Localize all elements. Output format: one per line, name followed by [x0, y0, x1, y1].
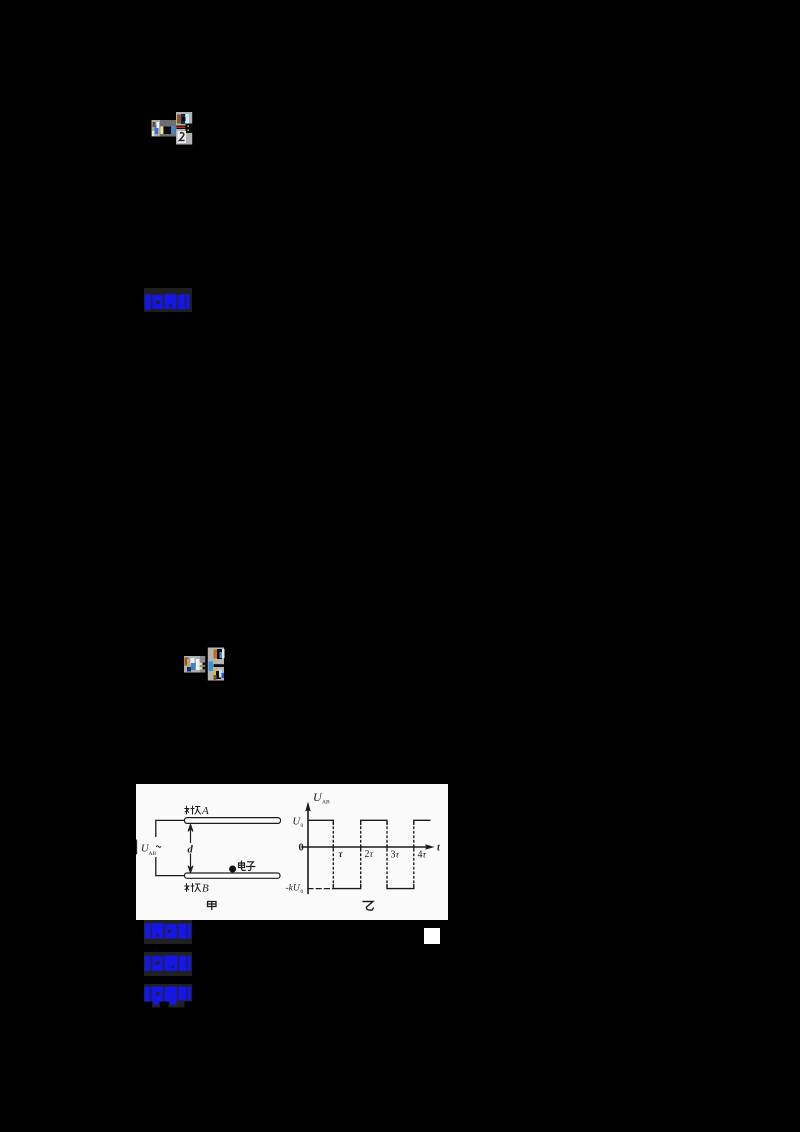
y axis: [307, 807, 309, 894]
svg-text:0: 0: [301, 889, 304, 895]
electron dot: [229, 866, 236, 873]
svg-text:2τ: 2τ: [365, 849, 374, 860]
square wave low segment 2: [387, 885, 414, 889]
svg-text:B: B: [202, 883, 209, 895]
dotted vertical at 3tau: [386, 823, 388, 887]
dotted vertical at tau: [332, 823, 334, 887]
svg-text:AB: AB: [322, 800, 330, 806]
ac source tilde: [156, 846, 160, 848]
square wave high segment 2: [361, 820, 387, 824]
caption yi: [363, 902, 374, 911]
y axis arrowhead: [305, 802, 311, 812]
label plate A (ji ban A): [185, 806, 201, 814]
gap arrow d (double headed): [188, 825, 192, 873]
dashed -kU0 leader: [308, 888, 333, 890]
blue tag blob [topic]: [144, 952, 192, 976]
x axis arrowhead: [425, 844, 435, 849]
label electron (dian zi): [239, 861, 256, 871]
white square bullet: [424, 928, 440, 944]
svg-text:4τ: 4τ: [418, 849, 427, 860]
top plate: [185, 818, 281, 824]
caption jia: [208, 902, 217, 910]
physics figure white panel: [136, 784, 448, 920]
stray mark: [136, 840, 138, 854]
blue tag blob [answer]: [144, 288, 192, 312]
blue tag blob [analysis]: [144, 984, 192, 1008]
svg-text:3τ: 3τ: [391, 849, 400, 860]
x axis: [302, 846, 430, 848]
formula blob 2 (tiny pixelated equation): [183, 646, 225, 682]
wire top: [156, 820, 185, 836]
dotted vertical at 2tau: [360, 823, 362, 887]
blue tag blob [key point]: [144, 920, 192, 944]
svg-text:-kU: -kU: [286, 884, 301, 894]
svg-text:d: d: [188, 845, 194, 856]
formula blob 1 (tiny pixelated equation): [151, 111, 193, 145]
label plate B (ji ban B): [185, 884, 201, 892]
square wave low segment 1: [333, 885, 360, 889]
svg-text:A: A: [201, 805, 209, 817]
svg-text:0: 0: [299, 843, 304, 854]
wire bottom: [156, 858, 185, 876]
square wave high segment 1: [308, 820, 333, 824]
svg-text:AB: AB: [149, 851, 157, 857]
svg-text:0: 0: [301, 823, 304, 829]
square wave high segment 3: [414, 820, 430, 824]
bottom plate: [185, 873, 281, 878]
dotted vertical at 4tau: [413, 823, 415, 887]
axis ticks: [333, 845, 414, 849]
